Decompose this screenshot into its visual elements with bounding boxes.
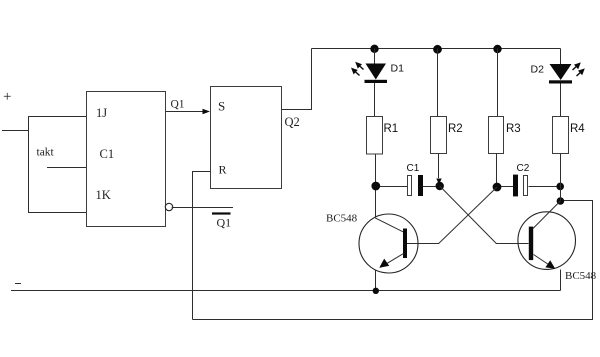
svg-text:1K: 1K [96,188,111,202]
wire Q1bar to R input [193,172,211,320]
wire C1 left [380,186,408,188]
wire R3 to node [496,154,498,184]
wire D1 cathode to R1 [374,83,376,117]
LED D2 [550,64,572,80]
transistor Q2 emitter arrow [545,260,555,269]
wire Q2 output to top rail [282,49,312,110]
wire D2 cathode to R4 [560,84,562,117]
svg-text:R3: R3 [506,123,521,135]
wire R1 to Q1 collector [375,154,377,218]
junction dot C1 left [371,182,380,191]
wire C1 right [423,186,436,188]
junction dot Q2 collector node [557,197,565,205]
flip-flop U1 (JK) [87,92,166,227]
LED D1 emission arrows [351,62,364,76]
LED D2 emission arrows [573,62,585,76]
svg-text:R2: R2 [448,123,463,135]
transistor Q2 emitter line [534,255,554,268]
svg-text:R: R [219,163,227,177]
junction dot rail R2 [433,45,442,54]
svg-text:R1: R1 [384,123,399,135]
svg-text:+: + [3,89,11,105]
wire R2 to node with arrow [438,154,440,179]
arrowhead at S [203,109,211,115]
wire 1J/1K input loop [29,117,87,213]
wire C2 node to Q1 base (cross) [407,187,497,244]
inverted output bubble Q1bar [165,203,172,210]
junction dot rail D1 [370,45,378,53]
wire top supply rail [312,48,561,50]
capacitor C1 right plate [418,175,423,196]
svg-text:BC548: BC548 [565,270,597,282]
wire plus input [2,130,28,132]
wire Q1 to S input [166,111,204,113]
latch U2 (SR) [211,87,282,189]
junction dot C1 right [436,182,444,190]
capacitor C2 left plate [513,175,518,197]
junction dot Q1 emitter [373,288,379,294]
wire C2 right [529,186,557,188]
transistor Q1 BC548 circle [359,214,418,273]
transistor Q1 emitter line [381,254,404,268]
wire C2 left [501,186,513,188]
wire negative rail [11,290,561,292]
svg-text:D1: D1 [391,62,405,74]
resistor R4 [553,117,569,154]
wire rail to R2 [437,49,439,117]
svg-text:Q1: Q1 [217,216,232,230]
transistor Q2 collector line [533,201,560,229]
junction dot rail R3 [493,45,501,53]
svg-text:C2: C2 [517,163,530,174]
wire C1 node to Q2 base (cross) [440,186,529,244]
wire rail to R3 [497,49,499,117]
svg-text:R4: R4 [570,123,585,135]
resistor R1 [367,117,383,155]
svg-text:Q1: Q1 [171,99,185,111]
svg-text:takt: takt [37,147,55,159]
junction dot C2 left [493,183,502,192]
LED D1 [366,64,387,80]
resistor R3 [489,117,504,154]
transistor Q2 base bar [529,227,533,261]
node Q1bar label overline [212,212,231,214]
svg-text:1J: 1J [96,106,107,120]
transistor Q2 BC548 circle [518,212,576,270]
capacitor C2 right plate [524,176,528,196]
capacitor C1 left plate [408,176,412,196]
svg-text:S: S [218,99,225,114]
wire R4 to C2 node [560,154,562,201]
transistor Q1 emitter arrow [379,259,389,268]
wire feedback bottom to Q2 collector [193,201,593,320]
wire Q2 emitter to rail [560,270,562,291]
transistor Q1 collector line [375,218,403,232]
junction dot C2 right [556,183,564,191]
resistor R2 [431,117,447,154]
wire D1 anode [374,49,376,65]
svg-text:C1: C1 [100,147,115,161]
svg-text:BC548: BC548 [326,213,358,225]
svg-text:D2: D2 [531,63,545,75]
node - (negative supply label) [15,283,21,285]
transistor Q1 base bar [403,229,407,259]
svg-text:Q2: Q2 [285,115,300,129]
wire Q1 emitter to rail [375,270,377,292]
svg-text:C1: C1 [407,163,420,174]
wire rail end to D2 [560,49,562,65]
wire Q1bar stub [172,207,233,209]
wire takt clock input [47,167,87,169]
